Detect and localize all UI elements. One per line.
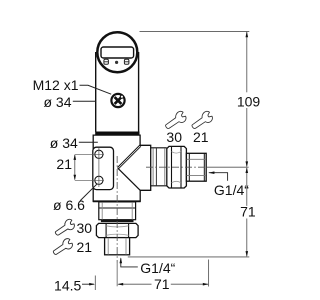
black band (95, 132, 139, 136)
dim line 109 (237, 31, 261, 167)
wrench icon left 30 (53, 218, 76, 237)
hole center marks (75, 153, 104, 155)
leader dia 6.6 (80, 184, 97, 201)
hole upper (95, 150, 103, 158)
side port cylinder (151, 148, 167, 186)
side port centerline (146, 166, 206, 168)
cone fold line lower (118, 168, 141, 190)
dim extension right of side port (208, 260, 210, 287)
block bottom thick edge (93, 200, 141, 202)
body tower (96, 52, 139, 132)
centerline extension right (206, 166, 248, 168)
dim line 71 vertical (240, 167, 256, 257)
bottom hex nut (96, 223, 138, 237)
side port hex nut (167, 146, 187, 188)
svg-text:G1/4“: G1/4“ (140, 260, 175, 276)
leader dia34 body (73, 100, 96, 102)
dim 21 plate (56, 154, 76, 180)
dim extension top (109) (140, 30, 250, 32)
wrench icon top 21 (189, 110, 214, 131)
M12 connector screw (111, 94, 124, 107)
svg-text:21: 21 (77, 239, 93, 255)
button left (104, 59, 109, 64)
leader G1/4 bottom (120, 257, 176, 276)
button right (124, 59, 128, 64)
side port thread (186, 153, 206, 181)
bottom flange dark ring (101, 220, 134, 222)
leader G1/4 side (209, 171, 250, 197)
bottom thread (105, 238, 130, 255)
svg-text:M12 x1: M12 x1 (33, 77, 79, 93)
svg-text:ø 6.6: ø 6.6 (53, 197, 85, 213)
leader M12 (80, 85, 112, 94)
svg-text:14.5: 14.5 (54, 278, 81, 294)
mounting plate (93, 147, 114, 189)
cone fold line upper (118, 145, 140, 168)
bottom adapter cylinder (99, 202, 136, 220)
svg-text:30: 30 (77, 220, 93, 236)
svg-text:21: 21 (193, 129, 209, 145)
svg-text:109: 109 (237, 93, 261, 109)
wrench icon left 21 (51, 237, 74, 256)
svg-text:ø 34: ø 34 (43, 94, 71, 110)
elbow block (93, 135, 151, 201)
sensor head (97, 32, 137, 72)
svg-text:ø 34: ø 34 (50, 135, 78, 151)
wrench icon top 30 (163, 110, 188, 131)
sensor head outer rim arc (99, 61, 137, 72)
dim extension bottom (128, 256, 250, 258)
svg-text:71: 71 (154, 276, 170, 292)
svg-text:30: 30 (166, 129, 182, 145)
dim 71 horizontal (117, 276, 208, 292)
svg-text:G1/4“: G1/4“ (214, 182, 249, 198)
bottom centerline (116, 156, 118, 263)
svg-text:71: 71 (240, 204, 256, 220)
display window (101, 47, 134, 58)
button middle dot (115, 61, 118, 64)
dim 14.5 (54, 276, 95, 294)
hole lower (95, 176, 103, 184)
leader dia34 block (79, 141, 98, 143)
svg-text:21: 21 (56, 156, 72, 172)
